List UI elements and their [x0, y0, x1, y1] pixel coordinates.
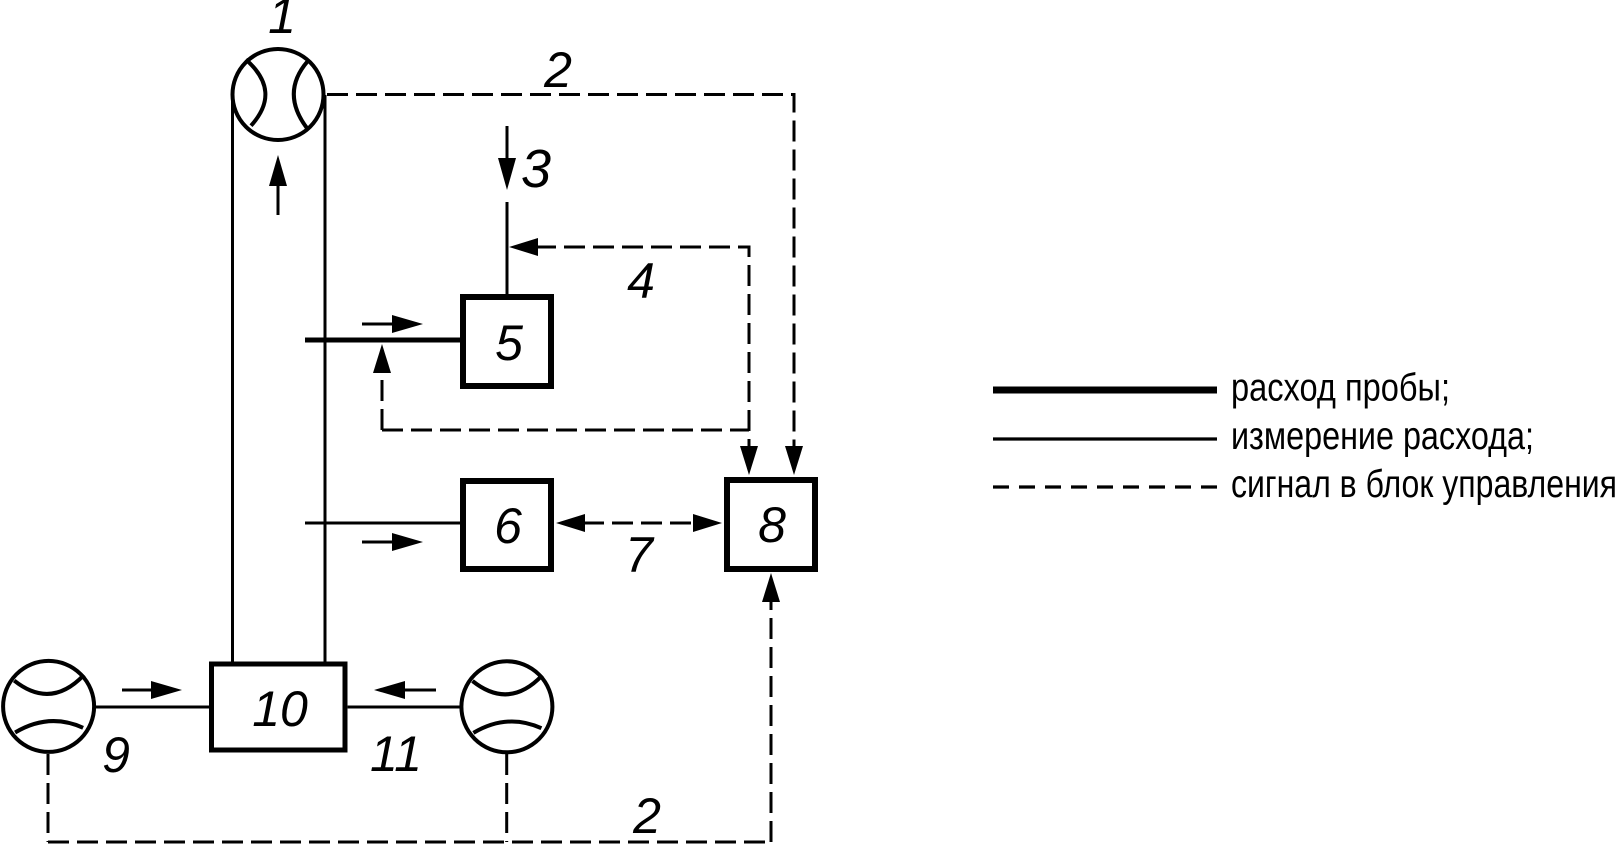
wire dashed 7	[583, 522, 695, 525]
svg-text:9: 9	[102, 727, 130, 783]
wire dashed 2 bottom	[48, 841, 771, 844]
arrow down into box 8 top left	[740, 446, 758, 475]
wire 11 to 10	[348, 706, 460, 709]
svg-text:6: 6	[494, 498, 522, 554]
arrow right above wire 9-10	[122, 681, 182, 699]
dashed arrow up to thick wire	[373, 344, 391, 430]
wire dashed below 11	[505, 754, 508, 842]
svg-text:7: 7	[625, 527, 655, 583]
svg-text:2: 2	[543, 42, 572, 98]
wire dashed below 9	[47, 754, 50, 842]
box 6	[463, 481, 551, 569]
box 10	[212, 664, 346, 750]
thick sample wire into 5	[305, 338, 460, 343]
svg-text:4: 4	[627, 253, 655, 309]
svg-text:10: 10	[252, 681, 308, 737]
wire 3 lower	[506, 202, 509, 294]
wire dashed 2 top	[327, 95, 794, 449]
arrow left above wire 11-10	[374, 681, 436, 699]
svg-text:2: 2	[632, 788, 661, 844]
arrow left into wire 3	[509, 238, 538, 256]
svg-text:измерение расхода;: измерение расхода;	[1231, 415, 1534, 458]
wire dashed up into box 8 bottom	[770, 600, 773, 842]
arrow left into box 6	[556, 514, 585, 532]
legend thin measure line	[993, 437, 1217, 440]
thin wire into 6	[305, 522, 460, 525]
wire dashed 4 bottom branch	[382, 429, 749, 432]
arrow up into box 8 bottom	[762, 573, 780, 602]
wire 9 to 10	[94, 706, 209, 709]
blower 9	[3, 661, 94, 752]
svg-text:5: 5	[495, 315, 523, 371]
svg-text:11: 11	[370, 726, 422, 782]
svg-text:3: 3	[521, 139, 551, 199]
arrow right below wire	[362, 533, 423, 551]
arrow right above wire	[362, 315, 423, 333]
wire 3 upper	[506, 126, 509, 162]
box 8	[727, 480, 815, 569]
wire dashed 4	[535, 247, 749, 448]
blower 1	[233, 49, 324, 140]
arrow into box 8 top right	[785, 446, 803, 475]
svg-text:8: 8	[758, 497, 786, 553]
arrow right into box 8	[693, 514, 722, 532]
blower 11	[461, 661, 552, 752]
legend thick sample line	[993, 387, 1217, 394]
box 5	[463, 297, 551, 386]
svg-text:расход пробы;: расход пробы;	[1231, 367, 1450, 410]
wire tube left	[231, 97, 234, 664]
arrow 3 down	[498, 158, 516, 190]
svg-text:сигнал в блок управления: сигнал в блок управления	[1231, 463, 1617, 506]
legend dashed signal line	[993, 485, 1217, 488]
svg-text:1: 1	[268, 0, 296, 44]
arrow up in tube	[269, 155, 287, 215]
wire tube right	[324, 95, 327, 664]
